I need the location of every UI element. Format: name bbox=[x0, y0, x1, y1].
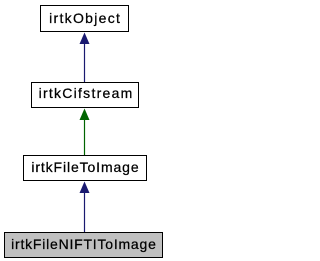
inheritance arrow irtkCifstream -> irtkObject (public, midnightblue) bbox=[80, 33, 90, 83]
inheritance arrow irtkFileNIFTIToImage -> irtkFileToImage (public, midnightblue) bbox=[80, 182, 90, 233]
class node irtkObject bbox=[40, 5, 129, 32]
class node irtkCifstream bbox=[31, 82, 139, 108]
class node irtkFileNIFTIToImage (current, gray) bbox=[4, 232, 163, 258]
class node irtkFileToImage bbox=[23, 155, 147, 181]
inheritance arrow irtkFileToImage -> irtkCifstream (protected, darkgreen) bbox=[80, 109, 90, 156]
